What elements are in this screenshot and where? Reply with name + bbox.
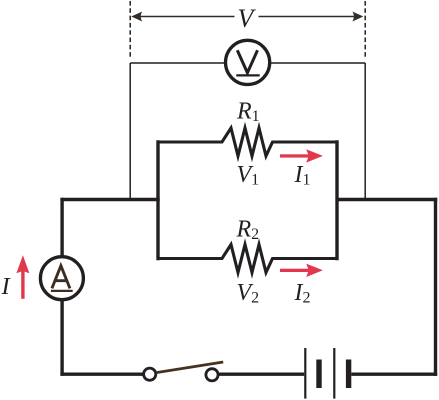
wire: voltmeter left drop (thin vertical) xyxy=(129,63,131,200)
dashed extension line (right) xyxy=(364,1,366,58)
wire: battery to right rail xyxy=(351,373,437,376)
current arrow I2 (red) xyxy=(280,264,323,277)
battery cell 1 short plate xyxy=(316,360,321,389)
ammeter A circle xyxy=(40,257,83,300)
parallel box left edge xyxy=(156,140,159,260)
wire: left rail lower (ammeter to bottom) xyxy=(60,301,63,376)
battery cell 2 long plate xyxy=(333,348,335,399)
dimension arrow line V (right segment) xyxy=(259,16,362,18)
dimension arrowhead left xyxy=(131,12,142,22)
wire: left rail upper (to ammeter) xyxy=(60,198,63,256)
ammeter letter underline xyxy=(51,290,73,292)
wire: voltmeter horizontal xyxy=(130,62,365,64)
battery cell 1 long plate xyxy=(304,348,306,399)
voltmeter V1 circle xyxy=(226,40,270,84)
resistor R1 branch with zigzag xyxy=(158,128,337,156)
switch left terminal xyxy=(144,368,156,380)
dimension arrow line V (left segment) xyxy=(133,16,235,18)
switch lever (open) xyxy=(156,362,223,373)
parallel box right edge xyxy=(335,140,338,260)
ammeter letter A xyxy=(52,266,70,289)
wire: right horizontal from parallel box xyxy=(337,198,437,201)
wire: voltmeter right drop (thin vertical) xyxy=(364,63,366,200)
battery cell 2 short plate xyxy=(346,360,351,389)
dashed extension line (left) xyxy=(129,1,131,58)
wire: bottom left (to switch) xyxy=(60,373,142,376)
dimension arrowhead right xyxy=(352,12,363,22)
wire: right rail xyxy=(434,198,437,376)
switch right terminal xyxy=(206,369,218,381)
wire: switch to battery xyxy=(219,373,305,376)
voltmeter letter V xyxy=(237,50,257,73)
current arrow I (red, up) xyxy=(16,255,29,299)
current arrow I1 (red) xyxy=(280,149,323,162)
voltmeter letter underline xyxy=(236,74,259,76)
wire: left horizontal to parallel box xyxy=(60,198,159,201)
resistor R2 branch with zigzag xyxy=(158,245,337,273)
